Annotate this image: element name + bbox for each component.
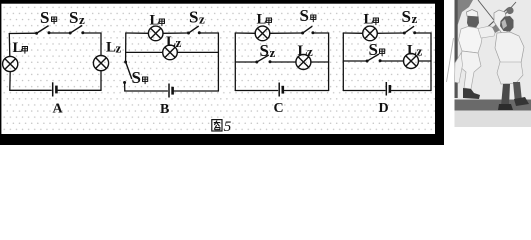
battery of B (169, 84, 173, 98)
wire D middle branch right stub (418, 60, 431, 62)
svg-text:S: S (300, 6, 309, 25)
photo: dark floor band (piste) (455, 100, 531, 111)
svg-text:L: L (150, 13, 160, 29)
photo: foil blade 2 (478, 0, 497, 24)
photo: right fencer raised arm sleeve (494, 10, 509, 35)
photo: right fencer shoes on floor (498, 104, 513, 110)
wire D middle branch between (380, 60, 404, 62)
wire B left vertical lower (124, 83, 126, 91)
top border bar of scanned figure (0, 0, 440, 4)
svg-text:S: S (189, 8, 198, 27)
label S2 of C (260, 41, 276, 60)
svg-text:z: z (176, 35, 182, 50)
svg-text:A: A (53, 102, 64, 117)
wire D bottom-right segment (392, 90, 431, 92)
wire D bottom-left segment (343, 90, 385, 92)
photo: fencers background (455, 0, 531, 127)
label L1 of A (13, 40, 28, 56)
photo: right fencer dark lower legs (501, 84, 510, 106)
svg-text:S: S (69, 8, 78, 27)
wire B bottom-right segment (174, 90, 218, 92)
svg-text:L: L (106, 40, 116, 56)
wire C bottom-right segment (284, 90, 328, 92)
photo: light floor (455, 111, 531, 128)
lamp L1 (L jia) of C (255, 26, 270, 41)
svg-text:z: z (79, 12, 85, 27)
wire B lamp to switch (163, 32, 188, 34)
photo: left fencer legs lunge (459, 51, 481, 89)
photo: right fencer fist and guard (506, 7, 513, 14)
photo: foil blade 1 (463, 8, 508, 50)
svg-text:L: L (13, 40, 23, 56)
svg-text:S: S (132, 68, 141, 87)
wire A left lamp to bottom (9, 72, 11, 91)
wire A right lamp to bottom (100, 71, 102, 91)
switch S2 (S yi) of D (403, 26, 416, 34)
wire A bottom-right segment (58, 89, 101, 91)
svg-text:z: z (116, 41, 122, 56)
wire D top-right corner (415, 33, 431, 91)
photo: left fencer dark mask (467, 16, 479, 30)
photo: left fencer shoes (463, 88, 480, 99)
svg-text:D: D (379, 101, 389, 116)
wire A top-right segment (83, 33, 101, 56)
wire C lamp to switch (270, 32, 303, 34)
wire C middle branch between (270, 61, 296, 63)
foil tip extending into white gap (447, 38, 454, 82)
wire D lamp to switch (377, 32, 404, 34)
lamp L2 (L yi) of C (296, 55, 311, 70)
photo: right fencer dark head (500, 16, 514, 32)
svg-text:B: B (160, 102, 169, 117)
label L2 of D (407, 43, 423, 59)
svg-text:C: C (274, 101, 284, 116)
photo: right fencer breeches (497, 62, 523, 84)
wire B bottom-left segment (125, 90, 168, 92)
lamp L2 (L yi) of A (93, 56, 108, 71)
photo: left fencer extended arm (478, 26, 496, 38)
wire C bottom-left segment (235, 90, 277, 92)
svg-text:S: S (402, 7, 411, 26)
figure background (0, 0, 444, 145)
label L1 of B (150, 13, 165, 29)
label S1 of A (40, 8, 57, 27)
svg-text:S: S (260, 41, 269, 60)
wire C middle branch right stub (311, 61, 329, 63)
wire B left vertical upper (125, 33, 127, 62)
label S1 of B (132, 68, 148, 87)
wire A top-left segment (9, 32, 36, 34)
wire C top-right corner (313, 33, 329, 91)
wire A between switches (49, 32, 70, 34)
wire A left vertical (8, 34, 11, 57)
wire C left vertical (234, 33, 236, 91)
wire D top-left to lamp (343, 32, 362, 34)
photo: left fencer glove (492, 25, 500, 33)
svg-text:z: z (270, 45, 276, 60)
photo: dark left edge strip (455, 0, 458, 98)
wire B top-right corner (199, 33, 218, 91)
lamp L1 (L jia) of B (148, 26, 163, 41)
switch S2 (S yi) of C (255, 55, 271, 64)
lamp L1 (L jia) of D (363, 26, 378, 41)
wire D left vertical (342, 33, 344, 91)
switch S1 (S jia) of C (301, 26, 314, 34)
switch S2 (S yi) of B (187, 26, 201, 35)
lamp L2 (L yi) of B (163, 45, 178, 60)
svg-text:z: z (307, 44, 313, 59)
photo: left fencer white cap (467, 10, 479, 18)
label L2 of B (166, 34, 182, 50)
wire C middle branch left stub (235, 61, 256, 63)
label S2 of B (189, 8, 205, 27)
svg-text:5: 5 (224, 119, 232, 135)
switch S1 (S jia) of A (35, 26, 50, 35)
svg-text:L: L (298, 43, 308, 59)
svg-text:S: S (369, 40, 378, 59)
wire B middle branch left (126, 51, 163, 53)
svg-text:L: L (166, 34, 176, 50)
right border band of scanned figure (435, 0, 444, 145)
svg-text:z: z (412, 11, 418, 26)
svg-text:z: z (199, 12, 205, 27)
photo: left fencer jacket body (459, 27, 484, 54)
bottom border band of scanned figure (0, 134, 444, 145)
switch S1 (S jia) of D (366, 54, 382, 63)
svg-text:L: L (364, 12, 374, 28)
left border line of scanned figure (0, 0, 1, 145)
photo: left fencer rear leg (455, 53, 463, 83)
photo: right fencer jacket body (495, 32, 524, 64)
photo: dark background patch top-left (455, 0, 474, 28)
wire A bottom-left segment (10, 89, 51, 91)
svg-text:L: L (257, 12, 267, 28)
label S2 of D (402, 7, 418, 26)
svg-text:S: S (40, 8, 49, 27)
lamp L2 (L yi) of D (404, 54, 419, 69)
switch S2 (S yi) of A (69, 25, 85, 34)
battery of D (386, 82, 390, 96)
photo: foil blade 3 (494, 2, 516, 27)
battery of C (279, 83, 283, 97)
label S2 of A (69, 8, 85, 27)
switch S1 (S jia) of B on left wire (123, 61, 132, 85)
photo: right fencer face highlight (502, 19, 508, 29)
wire B middle branch right (177, 51, 218, 53)
wire B top-left to lamp (126, 32, 149, 34)
label L1 of C (257, 12, 272, 28)
label L2 of A (106, 40, 122, 56)
label S1 of D (369, 40, 385, 59)
svg-text:L: L (407, 43, 417, 59)
label S1 of C (300, 6, 316, 25)
lamp L1 (L jia) of A (3, 56, 18, 71)
svg-text:z: z (417, 44, 423, 59)
wire C top-left to lamp (235, 32, 255, 34)
label L1 of D (364, 12, 379, 28)
label L2 of C (298, 43, 314, 59)
caption: figure 5 (tu 5) (212, 119, 232, 135)
battery of A (53, 82, 57, 96)
wire D middle branch left stub (343, 60, 367, 62)
